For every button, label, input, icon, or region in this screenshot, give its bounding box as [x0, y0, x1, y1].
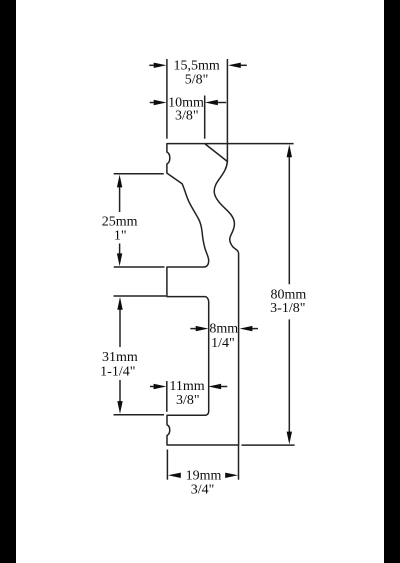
dim 15.5mm tails [149, 64, 156, 66]
svg-text:19mm: 19mm [186, 468, 222, 483]
extension line right of 15.5mm [226, 59, 228, 162]
black bar right [384, 0, 400, 563]
svg-text:11mm: 11mm [169, 379, 204, 394]
dim 25mm vertical line segments [119, 183, 121, 212]
dim 80mm vertical line segments [288, 153, 290, 284]
svg-text:3/8": 3/8" [176, 393, 200, 408]
arrowheads 19mm (inside, pointing out) [168, 473, 181, 478]
svg-text:8mm: 8mm [209, 322, 238, 337]
svg-text:1-1/4": 1-1/4" [100, 364, 135, 379]
svg-text:31mm: 31mm [102, 350, 138, 365]
svg-text:15,5mm: 15,5mm [173, 58, 219, 73]
svg-text:5/8": 5/8" [185, 73, 209, 88]
svg-text:1/4": 1/4" [211, 336, 235, 351]
arrowheads 31mm [117, 297, 122, 310]
dim 19mm extension lines [166, 450, 168, 480]
extension line middle (10mm right) [204, 96, 206, 139]
arrowheads 25mm (inside, pointing out) [117, 175, 122, 188]
svg-text:3/4": 3/4" [191, 483, 215, 498]
svg-text:1": 1" [114, 229, 127, 244]
dim 80mm extension lines [205, 143, 294, 145]
arrowheads 15.5mm (outside, pointing in) [154, 63, 167, 68]
extension line left (15.5mm / 10mm) [166, 59, 168, 139]
dim 8mm tails [190, 328, 197, 330]
svg-text:3/8": 3/8" [175, 109, 199, 124]
dim 11mm tails [150, 386, 156, 388]
arrowheads 80mm [287, 144, 292, 157]
svg-text:3-1/8": 3-1/8" [270, 301, 305, 316]
dim 31mm vertical line segments [119, 306, 121, 348]
arrowheads 8mm [196, 326, 209, 331]
arrowheads 11mm [154, 384, 167, 389]
arrowheads 10mm [154, 100, 167, 105]
dim 31mm extension lines [114, 295, 167, 297]
moulding profile outline [167, 144, 239, 445]
dim 25mm extension lines [114, 173, 164, 175]
dim 10mm tails [150, 102, 156, 104]
svg-text:25mm: 25mm [102, 215, 138, 230]
black bar left [0, 0, 16, 563]
dim 11mm extension line [166, 381, 168, 412]
